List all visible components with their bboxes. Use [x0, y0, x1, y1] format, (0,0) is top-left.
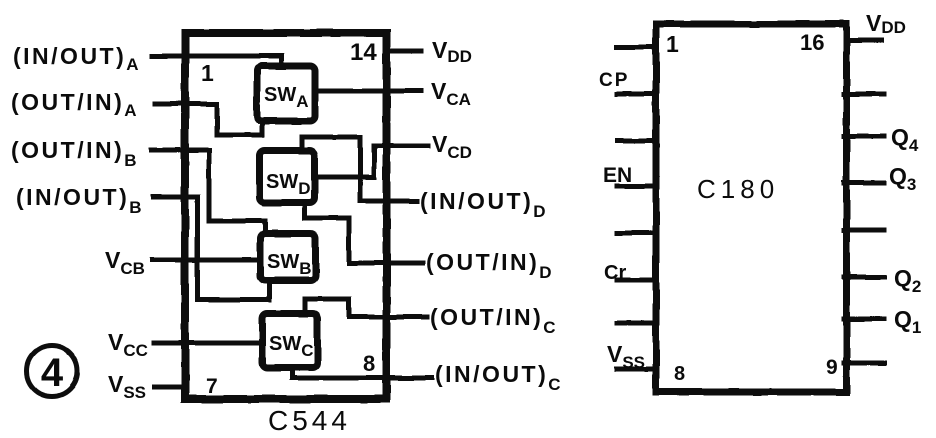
svg-text:SWA: SWA — [264, 84, 309, 111]
svg-text:1: 1 — [666, 31, 679, 57]
svg-text:EN: EN — [603, 164, 632, 187]
svg-text:VCC: VCC — [108, 329, 148, 360]
IC body U1 C544 — [185, 33, 387, 399]
svg-text:C180: C180 — [697, 174, 779, 204]
part name C544 — [268, 405, 351, 436]
wire VDD stub pin 14 — [386, 49, 421, 54]
pin number 8 C180 — [674, 363, 685, 385]
wire SWA right to VCA — [317, 89, 421, 94]
node Q3 label — [889, 163, 916, 194]
node Q1 label — [894, 306, 921, 337]
node (OUT/IN)B label — [11, 137, 137, 170]
svg-text:VSS: VSS — [607, 341, 645, 372]
node (IN/OUT)A label — [13, 43, 139, 74]
wire (IN/OUT)A to SWA top — [152, 56, 282, 62]
svg-text:Cr: Cr — [604, 262, 626, 284]
wire SWC bottom to (IN/OUT)C — [292, 368, 432, 378]
svg-text:CP: CP — [599, 70, 629, 91]
pin number 14 C544 — [350, 39, 377, 66]
svg-text:(OUT/IN)B: (OUT/IN)B — [11, 137, 137, 170]
node (OUT/IN)A label — [11, 89, 137, 120]
wire C180 right stub 8 pin 9 — [844, 361, 884, 366]
node VCC label — [108, 329, 148, 360]
switch SWD — [260, 151, 315, 203]
svg-text:(OUT/IN)C: (OUT/IN)C — [430, 304, 556, 337]
svg-text:VDD: VDD — [866, 10, 906, 37]
wire SWD bottom to (OUT/IN)D — [305, 203, 423, 263]
node (OUT/IN)C label — [430, 304, 556, 337]
wire C180 left stub 5 — [617, 231, 656, 236]
wire Q2 stub — [844, 275, 884, 280]
wire VSS to pin 7 — [154, 385, 186, 390]
IC body U2 C180 — [656, 24, 847, 392]
svg-text:VSS: VSS — [108, 371, 146, 402]
node VDD label C544 — [432, 37, 472, 66]
svg-text:7: 7 — [206, 375, 218, 398]
wire Q1 stub — [844, 317, 884, 322]
node (IN/OUT)C label — [435, 361, 561, 394]
node VDD label C180 — [866, 10, 906, 37]
svg-text:(OUT/IN)D: (OUT/IN)D — [426, 249, 552, 282]
wire (OUT/IN)B to SWB top — [151, 150, 265, 231]
wire Q4 stub — [844, 134, 884, 139]
wire VCB to SWB left — [152, 258, 259, 263]
switch SWA — [257, 66, 315, 121]
node VCB label — [105, 247, 145, 278]
svg-text:(IN/OUT)B: (IN/OUT)B — [16, 184, 142, 217]
wire C180 right stub 5 — [844, 228, 884, 233]
figure number 4 circle — [27, 346, 78, 397]
svg-text:VCD: VCD — [432, 131, 472, 162]
node Q4 label — [891, 124, 919, 155]
node Q2 label — [894, 265, 921, 296]
wire C180 pin 1 stub — [617, 45, 656, 50]
svg-text:(IN/OUT)C: (IN/OUT)C — [435, 361, 561, 394]
figure number 4 text — [41, 351, 64, 395]
svg-text:Q1: Q1 — [894, 306, 921, 337]
pin number 1 C544 — [201, 60, 214, 86]
pin number 7 C544 — [206, 375, 218, 398]
svg-text:(OUT/IN)A: (OUT/IN)A — [11, 89, 137, 120]
wire C180 left stub 7 — [617, 321, 656, 326]
node (IN/OUT)D label — [420, 188, 546, 221]
node VCA label — [431, 78, 471, 109]
switch SWC — [263, 314, 318, 368]
wire C180 right stub 2 — [844, 92, 884, 97]
node CP label — [599, 70, 629, 91]
pin number 1 C180 — [666, 31, 679, 57]
wire CP stub — [617, 92, 656, 97]
svg-text:SWD: SWD — [266, 171, 311, 198]
svg-text:16: 16 — [800, 30, 824, 55]
wire VDD stub pin 16 — [846, 38, 882, 43]
node Cr label — [604, 262, 626, 284]
node VSS label left — [108, 371, 146, 402]
svg-text:VCB: VCB — [105, 247, 145, 278]
part name C180 — [697, 174, 779, 204]
svg-text:8: 8 — [674, 363, 685, 385]
switch SWB — [261, 234, 316, 281]
switch SWD label text — [266, 171, 311, 198]
svg-text:9: 9 — [826, 356, 838, 379]
switch SWA label text — [264, 84, 309, 111]
node EN label — [603, 164, 632, 187]
svg-text:(IN/OUT)A: (IN/OUT)A — [13, 43, 139, 74]
node (IN/OUT)B label — [16, 184, 142, 217]
wire VSS stub pin 8 — [617, 367, 656, 372]
switch SWB label text — [267, 251, 312, 278]
switch SWC label text — [269, 333, 314, 360]
svg-text:VCA: VCA — [431, 78, 471, 109]
wire SWD top to (IN/OUT)D — [302, 137, 417, 201]
node VSS label C180 — [607, 341, 645, 372]
wire EN stub — [617, 184, 656, 189]
wire Cr stub — [617, 278, 656, 283]
svg-text:8: 8 — [363, 351, 375, 376]
wire C180 left stub 3 — [617, 139, 656, 144]
svg-text:SWC: SWC — [269, 333, 314, 360]
pin number 16 C180 — [800, 30, 824, 55]
svg-text:4: 4 — [41, 351, 64, 395]
svg-text:VDD: VDD — [432, 37, 472, 66]
wire SWD right to VCD — [316, 146, 428, 177]
svg-text:Q4: Q4 — [891, 124, 919, 155]
svg-text:(IN/OUT)D: (IN/OUT)D — [420, 188, 546, 221]
wire Q3 stub — [844, 181, 884, 186]
svg-text:Q3: Q3 — [889, 163, 916, 194]
svg-text:SWB: SWB — [267, 251, 312, 278]
wire SWC top to (OUT/IN)C — [305, 299, 427, 317]
svg-text:Q2: Q2 — [894, 265, 921, 296]
svg-text:C544: C544 — [268, 405, 351, 436]
wire (IN/OUT)B to SWB bottom — [153, 197, 269, 300]
svg-text:14: 14 — [350, 39, 377, 66]
wire VCC to SWC left — [154, 341, 261, 346]
node (OUT/IN)D label — [426, 249, 552, 282]
pin number 9 C180 — [826, 356, 838, 379]
svg-text:1: 1 — [201, 60, 214, 86]
pin number 8 C544 — [363, 351, 375, 376]
wire (OUT/IN)A to SWA bottom — [155, 104, 262, 135]
node VCD label — [432, 131, 472, 162]
